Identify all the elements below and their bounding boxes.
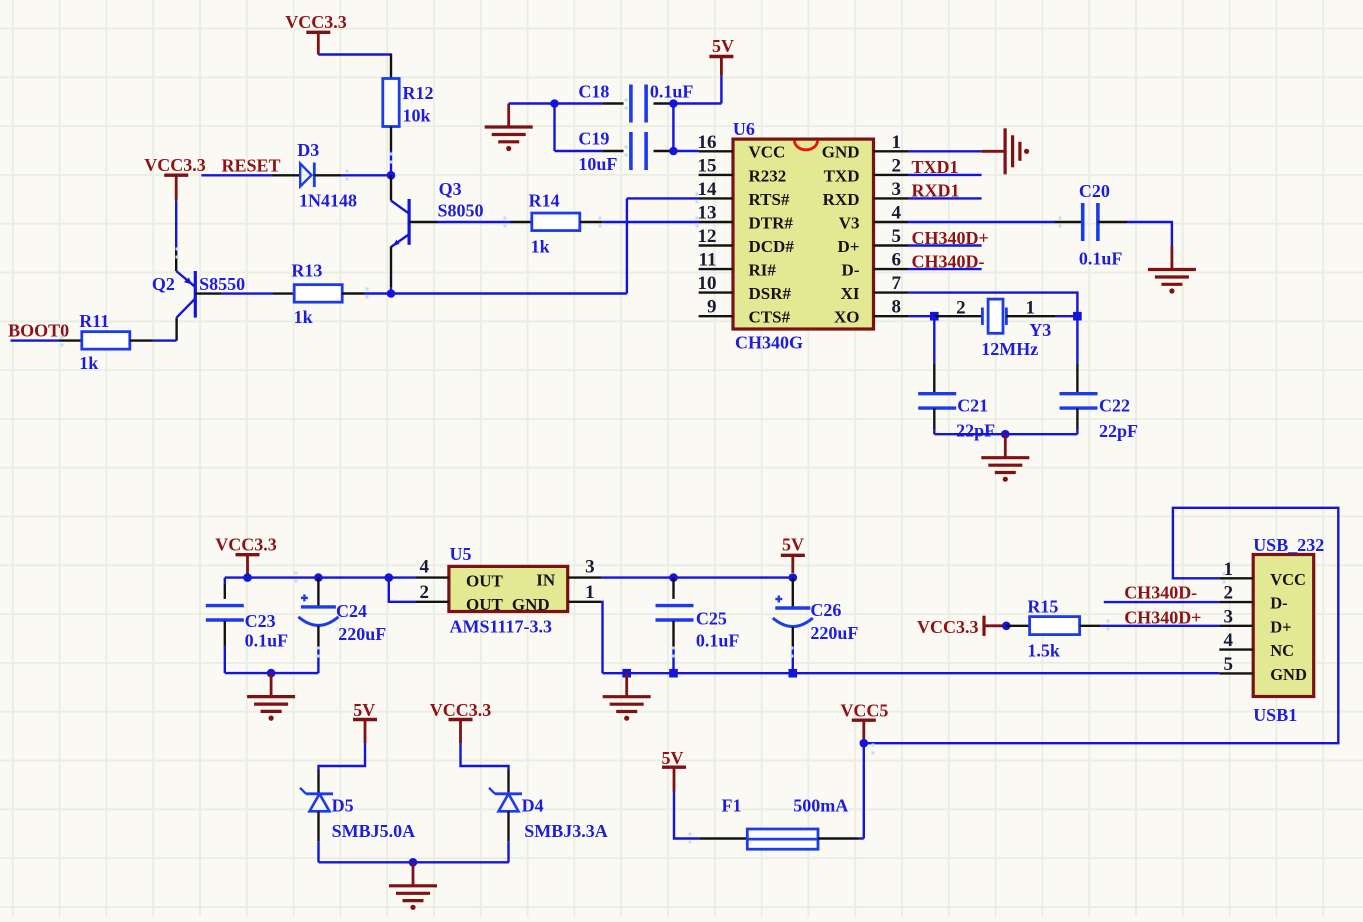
svg-text:5V: 5V — [662, 748, 684, 768]
wire U5 GND drop — [601, 602, 602, 673]
wire BOOT0 — [11, 339, 60, 341]
svg-text:TXD: TXD — [824, 166, 860, 185]
pin C24 bottom — [317, 626, 319, 647]
svg-text:D4: D4 — [522, 795, 544, 815]
svg-text:OUT: OUT — [466, 595, 504, 614]
pin D5 top — [317, 770, 319, 794]
wire C18 to 5V — [673, 102, 721, 104]
node crystal right — [1073, 312, 1082, 321]
pin D5 bottom — [317, 811, 319, 841]
wire C26 to gnd — [792, 647, 794, 674]
pin Q2 base — [195, 292, 221, 294]
wire Q3 base to R14 — [438, 221, 511, 223]
pin C26 bottom — [792, 627, 794, 647]
svg-text:C19: C19 — [578, 129, 609, 149]
pin 4 V3 stub — [874, 221, 909, 223]
wire U5 IN rail — [601, 576, 792, 578]
svg-text:AMS1117-3.3: AMS1117-3.3 — [450, 616, 553, 636]
op-amp U6 CH340G body — [733, 119, 874, 353]
svg-text:VCC3.3: VCC3.3 — [144, 155, 206, 175]
svg-text:22pF: 22pF — [956, 421, 995, 441]
pin C18 right — [654, 102, 674, 104]
svg-text:C18: C18 — [578, 82, 609, 102]
transistor Q3 S8050 — [391, 179, 484, 247]
wire main gnd rail — [603, 672, 1220, 674]
node R15 left — [1002, 622, 1011, 631]
node C26 gnd — [789, 669, 798, 678]
pin D4 bottom — [507, 811, 509, 841]
svg-text:8: 8 — [892, 297, 902, 318]
svg-text:CH340D+: CH340D+ — [912, 228, 989, 248]
wire VCC3.3 out rail — [225, 576, 416, 578]
pin R12 bottom — [390, 127, 392, 151]
capacitor C23 — [206, 606, 288, 651]
ground (main rail) — [603, 673, 651, 721]
pin R14 left — [511, 221, 532, 223]
diode D4 SMBJ3.3A — [489, 788, 608, 841]
wire USB D- — [1104, 601, 1220, 603]
ground (U6 pin1) — [982, 128, 1030, 174]
pin R11 right — [130, 339, 153, 341]
node gnd rail 1 — [622, 669, 631, 678]
wire crystal gnd rail — [934, 433, 1077, 435]
pin C25 bottom — [672, 621, 674, 647]
wire C21 to gnd rail — [933, 430, 935, 435]
svg-text:1: 1 — [892, 132, 902, 153]
svg-text:D+: D+ — [1270, 617, 1291, 636]
pin 3 RXD stub — [874, 197, 909, 199]
diode D3 1N4148 — [297, 140, 357, 211]
wire USB VCC loop — [864, 508, 1339, 743]
node C26 top — [789, 573, 798, 582]
svg-text:1.5k: 1.5k — [1027, 640, 1060, 660]
wire C19 branch vertical — [553, 104, 555, 152]
pin C23 bottom — [224, 621, 226, 647]
wire fuse to VCC5 — [859, 837, 864, 839]
pin F1 left — [699, 837, 747, 839]
node TVS gnd — [409, 858, 418, 867]
pin U5 1 — [568, 601, 602, 603]
svg-text:10: 10 — [698, 273, 717, 294]
pin C24 top — [317, 578, 319, 606]
node C18 left — [550, 99, 559, 108]
pin 2 TXD stub — [874, 174, 909, 176]
node crystal left — [930, 312, 939, 321]
svg-text:DTR#: DTR# — [749, 213, 794, 232]
svg-text:4: 4 — [1224, 630, 1234, 651]
svg-text:220uF: 220uF — [338, 624, 386, 644]
svg-text:2: 2 — [956, 298, 966, 319]
svg-text:12MHz: 12MHz — [981, 339, 1038, 359]
svg-text:RTS#: RTS# — [749, 190, 790, 209]
svg-text:2: 2 — [419, 582, 429, 603]
wire C18/C19 join — [672, 104, 674, 152]
crystal Y3 12MHz — [956, 298, 1051, 360]
svg-text:VCC5: VCC5 — [840, 701, 888, 721]
svg-text:4: 4 — [419, 557, 429, 578]
svg-text:5V: 5V — [353, 700, 375, 720]
wire GND pin1 — [908, 150, 982, 152]
power VCC3.3 (Q2 emitter) — [0, 0, 1, 1]
wire C24 to gnd — [317, 647, 319, 673]
pin C21 bottom — [933, 408, 935, 429]
wire VCC3.3 to D4 — [461, 743, 509, 770]
pin 16 VCC stub — [699, 150, 733, 152]
wire CH340D- (pin6) — [908, 268, 982, 270]
svg-text:C26: C26 — [810, 600, 841, 620]
wire gnd to C18 node — [509, 102, 555, 104]
wire RTS# horizontal — [627, 197, 699, 199]
pin C19 left — [602, 150, 623, 152]
svg-text:D3: D3 — [297, 140, 319, 160]
svg-text:D+: D+ — [838, 237, 860, 256]
svg-text:1: 1 — [585, 582, 595, 603]
wire Q2 collector to R11 — [153, 339, 177, 341]
wire VCC5 to fuse — [863, 743, 865, 838]
resistor R11 — [79, 311, 130, 373]
wire VCC3.3 down to Q2 — [175, 200, 177, 247]
pin R13 left — [272, 292, 294, 294]
svg-text:USB_232: USB_232 — [1253, 535, 1324, 555]
wire R15 to USB D+ — [1100, 625, 1219, 627]
svg-text:IN: IN — [536, 571, 556, 590]
svg-text:11: 11 — [699, 250, 717, 271]
pin C26 top — [792, 578, 794, 607]
pin Q3 base — [409, 221, 437, 223]
node crystal gnd — [1001, 430, 1010, 439]
wire Q3 emitter to node — [390, 287, 392, 293]
svg-text:C23: C23 — [245, 611, 276, 631]
resistor R15 1.5k — [1027, 596, 1079, 660]
pin 12 DCD# stub — [699, 244, 733, 246]
svg-text:SMBJ5.0A: SMBJ5.0A — [332, 821, 416, 841]
capacitor C19 — [578, 129, 646, 175]
pin 11 RI# stub — [699, 268, 733, 270]
svg-text:R232: R232 — [749, 166, 787, 185]
pin 14 RTS# stub — [699, 197, 733, 199]
wire C25 to gnd — [672, 647, 674, 674]
svg-text:VCC3.3: VCC3.3 — [285, 12, 347, 32]
wire C23 drop — [224, 578, 226, 584]
svg-text:CH340D-: CH340D- — [1124, 583, 1197, 603]
svg-text:TXD1: TXD1 — [912, 157, 959, 177]
pin Q2 emitter wire — [175, 248, 177, 271]
capacitor C24 220uF — [298, 594, 386, 644]
off-grid marks — [61, 99, 1226, 844]
pin U5 3 — [568, 576, 602, 578]
node VCC3.3 rail 2 — [314, 573, 323, 582]
wire R12 to node — [390, 151, 392, 176]
wire RXD1 — [908, 197, 982, 199]
svg-text:3: 3 — [1224, 606, 1234, 627]
pin Q3 emitter — [390, 247, 392, 288]
wire left gnd rail — [225, 672, 319, 674]
node VCC3.3 rail 3 — [385, 573, 394, 582]
pin R12 top — [390, 54, 392, 79]
wire TXD1 — [908, 174, 982, 176]
svg-text:S8050: S8050 — [438, 201, 484, 221]
connector USB1 USB_232 — [1253, 535, 1324, 725]
ground (TVS) — [389, 862, 437, 910]
svg-text:2: 2 — [1224, 583, 1234, 604]
wire CH340D+ (pin5) — [908, 244, 982, 246]
wire node to Q3 collector — [390, 175, 392, 200]
power VCC5 — [840, 701, 888, 740]
node C18 right — [669, 99, 678, 108]
pin Y3 left — [934, 315, 982, 317]
svg-text:RI#: RI# — [749, 261, 777, 280]
pin C25 top — [672, 578, 674, 599]
pin C21 top — [933, 363, 935, 393]
pin R15 right — [1080, 625, 1101, 627]
pin C20 left — [1055, 221, 1084, 223]
power VCC3.3 (RESET pull) — [144, 155, 206, 200]
pin USB 1 VCC — [1219, 577, 1253, 579]
wire C20 to gnd — [1127, 222, 1172, 246]
wire RTS# link vertical — [626, 198, 628, 293]
svg-text:VCC: VCC — [1270, 570, 1306, 589]
pin U5 4 — [415, 576, 449, 578]
wire VCC3.3 to R12 column — [318, 53, 391, 55]
svg-text:R14: R14 — [529, 191, 560, 211]
svg-text:22pF: 22pF — [1099, 421, 1138, 441]
pin 8 XO stub — [874, 315, 909, 317]
pin D3 anode — [272, 174, 301, 176]
capacitor C21 — [918, 394, 995, 441]
pin D3 cathode — [314, 174, 341, 176]
svg-text:1k: 1k — [531, 237, 550, 257]
svg-text:Q2: Q2 — [152, 274, 175, 294]
svg-text:5V: 5V — [782, 535, 804, 555]
ground (crystal) — [981, 434, 1029, 482]
svg-text:C25: C25 — [696, 609, 727, 629]
fuse F1 500mA — [722, 795, 849, 849]
svg-text:SMBJ3.3A: SMBJ3.3A — [524, 821, 608, 841]
ground (C23/C24) — [247, 673, 295, 721]
wire D5 to gnd rail — [317, 841, 319, 862]
transistor Q2 S8550 — [152, 271, 245, 318]
node C19 right — [669, 147, 678, 156]
svg-text:CH340G: CH340G — [735, 333, 803, 353]
ground (C20) — [1148, 246, 1196, 294]
svg-text:D5: D5 — [332, 795, 354, 815]
pin C19 right — [654, 150, 674, 152]
svg-text:C24: C24 — [336, 601, 367, 621]
svg-text:0.1uF: 0.1uF — [1079, 248, 1123, 268]
svg-text:7: 7 — [892, 273, 902, 294]
svg-text:NC: NC — [1270, 641, 1294, 660]
svg-text:DSR#: DSR# — [749, 284, 792, 303]
node left gnd — [267, 669, 276, 678]
power VCC3.3 (D4) — [430, 700, 492, 743]
pin R15 left — [1006, 625, 1029, 627]
svg-text:C22: C22 — [1099, 395, 1130, 415]
wire Y3 to XI link — [1056, 315, 1078, 317]
pin USB 5 GND — [1219, 672, 1253, 674]
svg-text:15: 15 — [698, 155, 717, 176]
pin R14 right — [580, 221, 602, 223]
power VCC3.3 (R15 pull) — [917, 616, 1004, 637]
power VCC3.3 (regulator out) — [215, 535, 277, 574]
pin 15 R232 stub — [699, 174, 733, 176]
pin 6 D- stub — [874, 268, 909, 270]
svg-text:CH340D+: CH340D+ — [1124, 608, 1201, 628]
svg-text:10k: 10k — [403, 106, 431, 126]
wire 5V to fuse — [674, 792, 699, 839]
svg-text:USB1: USB1 — [1253, 705, 1297, 725]
wire C22 to gnd rail — [1076, 430, 1078, 435]
capacitor C25 — [656, 606, 740, 651]
wire XO to crystal — [908, 315, 934, 317]
svg-text:14: 14 — [698, 179, 718, 200]
wire 5V to D5 — [319, 743, 366, 770]
svg-text:GND: GND — [1270, 665, 1307, 684]
wire Q2 collector row — [391, 292, 627, 294]
svg-text:U6: U6 — [733, 119, 755, 139]
resistor R13 — [291, 261, 342, 328]
svg-text:5: 5 — [892, 226, 902, 247]
svg-text:0.1uF: 0.1uF — [650, 82, 694, 102]
svg-text:XI: XI — [841, 284, 860, 303]
svg-text:C21: C21 — [957, 395, 988, 415]
wire C23 to gnd — [224, 647, 226, 673]
node R12/D3/Q3 — [387, 171, 396, 180]
svg-text:R12: R12 — [403, 83, 434, 103]
capacitor C26 220uF — [773, 596, 859, 644]
pin USB 3 D+ — [1219, 625, 1253, 627]
svg-text:0.1uF: 0.1uF — [245, 631, 289, 651]
svg-text:GND: GND — [822, 143, 860, 162]
svg-text:0.1uF: 0.1uF — [696, 631, 740, 651]
wire crystal to C22 — [1076, 316, 1078, 363]
regulator U5 AMS1117-3.3 — [449, 544, 568, 636]
pin R13 right — [342, 292, 364, 294]
pin 10 DSR# stub — [699, 291, 733, 293]
diode D5 SMBJ5.0A — [300, 788, 415, 841]
svg-text:DCD#: DCD# — [749, 237, 795, 256]
svg-text:9: 9 — [707, 297, 717, 318]
svg-text:13: 13 — [698, 203, 717, 224]
node C25 gnd — [669, 669, 678, 678]
svg-text:1: 1 — [1224, 559, 1234, 580]
wire rail to pin2 drop — [389, 578, 416, 602]
node C25 top — [669, 573, 678, 582]
svg-text:5V: 5V — [712, 36, 734, 56]
wire D3 to node — [342, 174, 391, 176]
wire Q2 base to R13 — [221, 292, 272, 294]
wire node to C18 — [555, 102, 603, 104]
pin C22 bottom — [1076, 408, 1078, 429]
svg-text:GND: GND — [512, 595, 550, 614]
pin 13 DTR# stub — [699, 221, 733, 223]
wire 5V to C18 node — [720, 76, 722, 104]
pin Y3 right — [1006, 315, 1055, 317]
pin C22 top — [1076, 363, 1078, 393]
svg-text:R13: R13 — [291, 261, 322, 281]
pin F1 right — [818, 837, 859, 839]
pin 5 D+ stub — [874, 244, 909, 246]
pin C23 top — [224, 584, 226, 599]
svg-text:RESET: RESET — [221, 156, 280, 176]
pin R11 left — [59, 339, 82, 341]
svg-text:CH340D-: CH340D- — [912, 251, 985, 271]
svg-text:1k: 1k — [79, 353, 98, 373]
svg-text:12: 12 — [698, 226, 717, 247]
svg-text:D-: D- — [842, 261, 860, 280]
wire R14 to U6 DTR# — [602, 221, 699, 223]
pin 7 XI stub — [874, 291, 909, 293]
capacitor C22 — [1060, 394, 1139, 441]
svg-text:1k: 1k — [294, 307, 313, 327]
pin C20 right — [1098, 221, 1127, 223]
svg-text:Y3: Y3 — [1029, 320, 1051, 340]
svg-text:OUT: OUT — [466, 572, 504, 591]
svg-text:10uF: 10uF — [578, 154, 617, 174]
svg-text:V3: V3 — [839, 213, 860, 232]
svg-text:6: 6 — [892, 250, 902, 271]
node Q3 emitter / R13 — [387, 289, 396, 298]
svg-text:VCC3.3: VCC3.3 — [215, 535, 277, 555]
pin D4 top — [507, 770, 509, 794]
svg-text:1N4148: 1N4148 — [299, 191, 357, 211]
wire to U6 VCC pin — [673, 150, 698, 152]
wire crystal to C21 — [933, 316, 935, 363]
svg-text:3: 3 — [585, 557, 595, 578]
pin USB 2 D- — [1219, 601, 1253, 603]
svg-text:500mA: 500mA — [793, 795, 848, 815]
svg-text:220uF: 220uF — [810, 623, 858, 643]
wire XI to crystal — [908, 293, 1077, 317]
svg-text:RXD1: RXD1 — [912, 180, 960, 200]
capacitor C18 — [578, 82, 693, 123]
wire RESET — [201, 174, 271, 176]
svg-text:RXD: RXD — [823, 190, 860, 209]
svg-text:3: 3 — [892, 179, 902, 200]
svg-text:4: 4 — [892, 203, 902, 224]
power 5V (U6 VCC) — [709, 36, 734, 76]
svg-text:VCC: VCC — [749, 143, 786, 162]
svg-text:5: 5 — [1224, 654, 1234, 675]
wire D4 to gnd — [507, 841, 509, 862]
svg-text:16: 16 — [698, 132, 717, 153]
resistor R12 — [383, 79, 434, 127]
pin U5 2 — [415, 601, 449, 603]
power 5V (D5) — [353, 700, 377, 743]
wire V3 to C20 — [908, 221, 1055, 223]
wire TVS gnd rail — [319, 861, 509, 863]
svg-text:BOOT0: BOOT0 — [8, 321, 69, 341]
ground (C18/C19) — [485, 104, 533, 152]
capacitor C20 — [1079, 181, 1123, 268]
pin USB 4 NC — [1219, 648, 1253, 650]
svg-text:2: 2 — [892, 155, 902, 176]
node VCC5 — [860, 739, 869, 748]
svg-text:VCC3.3: VCC3.3 — [917, 617, 979, 637]
wire C19 branch horizontal — [555, 150, 603, 152]
svg-text:R11: R11 — [79, 311, 109, 331]
svg-text:R15: R15 — [1027, 596, 1058, 616]
svg-text:VCC3.3: VCC3.3 — [430, 700, 492, 720]
node VCC3.3 rail 1 — [243, 573, 252, 582]
wire R13 to node — [364, 292, 391, 294]
pin Q2 collector — [175, 318, 177, 341]
power 5V (fuse) — [662, 748, 687, 792]
power 5V (regulator in) — [781, 535, 805, 573]
svg-text:S8550: S8550 — [199, 274, 245, 294]
svg-text:Q3: Q3 — [439, 179, 462, 199]
power VCC3.3 (top, R12 supply) — [285, 12, 347, 55]
pin 9 CTS# stub — [699, 315, 733, 317]
